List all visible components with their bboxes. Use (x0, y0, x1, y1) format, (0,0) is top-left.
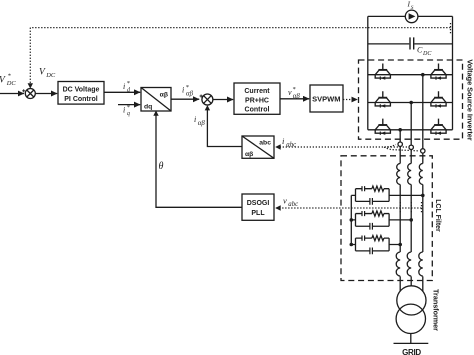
svg-text:Control: Control (245, 107, 270, 114)
svg-text:q: q (127, 111, 130, 117)
svg-text:PI Control: PI Control (64, 96, 97, 103)
svg-text:*: * (8, 73, 12, 80)
svg-text:SVPWM: SVPWM (312, 95, 340, 104)
svg-text:V: V (39, 68, 46, 78)
svg-text:Voltage Source Inverter: Voltage Source Inverter (466, 59, 474, 140)
svg-text:i: i (282, 136, 285, 146)
svg-text:v: v (283, 195, 287, 205)
svg-text:PLL: PLL (251, 210, 265, 217)
svg-text:θ: θ (159, 161, 164, 172)
svg-text:Current: Current (244, 88, 270, 95)
svg-text:DC: DC (45, 72, 56, 79)
svg-text:DSOGI: DSOGI (247, 200, 270, 207)
svg-text:S: S (411, 5, 414, 11)
svg-text:i: i (123, 82, 125, 91)
svg-text:DC: DC (422, 51, 432, 57)
svg-text:i: i (182, 86, 184, 95)
svg-text:*: * (127, 80, 131, 87)
svg-text:αβ: αβ (245, 151, 253, 158)
svg-text:dq: dq (144, 104, 152, 111)
svg-text:abc: abc (288, 201, 298, 208)
svg-text:αβ: αβ (186, 90, 194, 97)
svg-text:V: V (0, 75, 6, 85)
svg-text:αβ: αβ (160, 92, 168, 99)
svg-text:DC: DC (6, 80, 17, 87)
svg-text:DC Voltage: DC Voltage (63, 87, 100, 94)
svg-text:i: i (123, 106, 125, 115)
svg-text:αβ: αβ (293, 93, 301, 100)
svg-text:GRID: GRID (402, 348, 421, 355)
svg-text:abc: abc (259, 140, 271, 147)
svg-text:abc: abc (286, 141, 296, 148)
svg-text:LCL Filter: LCL Filter (434, 199, 441, 232)
svg-text:Transformer: Transformer (432, 289, 441, 331)
svg-text:i: i (194, 115, 196, 124)
svg-text:PR+HC: PR+HC (245, 97, 269, 104)
svg-text:αβ: αβ (198, 120, 206, 127)
